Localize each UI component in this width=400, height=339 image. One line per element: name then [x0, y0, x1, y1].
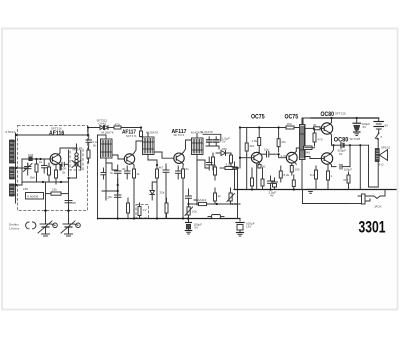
wire inner bottom bus [22, 181, 69, 183]
svg-text:SFT171: SFT171 [174, 133, 185, 137]
capacitor C14 [207, 157, 213, 170]
earphone jack [350, 190, 385, 209]
resistor 470 [114, 123, 121, 130]
svg-text:150: 150 [287, 122, 292, 126]
svg-text:5h: 5h [93, 144, 97, 148]
node out rail j2 [356, 117, 358, 119]
svg-text:3301: 3301 [359, 218, 386, 236]
IF transformer T3 [192, 134, 204, 161]
svg-text:4V: 4V [270, 194, 274, 198]
node bus2 [60, 181, 62, 183]
svg-text:SFT171: SFT171 [126, 134, 137, 138]
resistor on T2 riser [140, 131, 143, 137]
wire emitter resistor drop [60, 165, 61, 170]
svg-text:5n: 5n [186, 167, 190, 171]
wire agc bottom feed [102, 190, 118, 192]
antenna winding L2 [10, 167, 16, 179]
transistor AF117 no.2 [174, 152, 184, 164]
svg-text:8,2k: 8,2k [284, 173, 290, 177]
svg-text:AF116: AF116 [49, 131, 65, 137]
diode detector D3 [150, 186, 155, 200]
ferrite rod antenna bus wire [15, 133, 17, 203]
svg-text:30: 30 [122, 167, 126, 171]
wire OC80-2 emitter to output node [332, 145, 334, 152]
wire OC80-2 collector [332, 165, 337, 167]
capacitor C7 [125, 166, 131, 179]
wire AGC return [189, 203, 199, 205]
resistor R15 [214, 188, 217, 204]
speaker wiring loop [344, 144, 368, 146]
resistor 150 on rail [286, 122, 294, 129]
emitter resistor 50 [258, 165, 266, 169]
wire volume to rail [234, 172, 236, 190]
converter stage dashed enclosure [18, 126, 88, 211]
resistor R4 [55, 165, 58, 184]
vertical drops [246, 155, 248, 190]
oscillator coil T0 [69, 144, 84, 178]
svg-text:100: 100 [295, 168, 300, 172]
capacitor C21 [232, 162, 237, 172]
transistor OC75 no.2 [286, 151, 297, 164]
wire AGC line to T2 [121, 128, 141, 132]
resistor R25 [327, 164, 333, 190]
resistor R16 [245, 128, 248, 156]
transistor AF117 no.1 [124, 153, 134, 165]
series electrolytic 500uF [338, 143, 347, 156]
tuning gang section CA [38, 220, 57, 236]
supply rail audio [239, 128, 241, 169]
bias resistor 470 [313, 128, 323, 146]
node pot top [187, 203, 189, 205]
node antenna mid [15, 167, 17, 169]
svg-text:5n: 5n [109, 195, 113, 199]
svg-text:6V: 6V [195, 226, 199, 230]
svg-text:N.47A7K: N.47A7K [201, 130, 213, 134]
wire vertical feed b [359, 145, 361, 189]
svg-text:OC75: OC75 [251, 115, 265, 121]
transistor OC80 no.1 [321, 123, 332, 136]
node t2 top j [140, 126, 142, 128]
speaker SP102 [375, 146, 390, 167]
resistor R22 [279, 166, 289, 182]
electrolytic C15 horizontal on rail [208, 215, 224, 219]
diode D1 [100, 126, 104, 130]
capacitor C13 [214, 137, 220, 146]
svg-text:1.Krenz: 1.Krenz [9, 227, 20, 231]
wire AF117-2 collector to T3 [184, 140, 192, 152]
svg-text:6 Ω: 6 Ω [379, 162, 385, 166]
stage1 emitter capacitor C6 [110, 165, 121, 179]
stage1 emitter resistor [133, 168, 141, 184]
wire AF117-1 collector to T2 [134, 141, 143, 153]
resistor R2 [35, 159, 38, 182]
capacitor C9 [176, 166, 182, 179]
wire antenna tap [16, 164, 28, 168]
node agc bottom [117, 190, 119, 192]
wire det out down to filter [237, 168, 239, 219]
wire OC75-2 base [274, 154, 287, 158]
svg-text:70: 70 [52, 163, 56, 167]
electrolytic C18 [269, 178, 278, 198]
supply rail output stage [311, 117, 379, 119]
node agc return j [216, 203, 218, 205]
svg-text:SFT125: SFT125 [350, 137, 361, 141]
svg-text:1k: 1k [137, 172, 141, 176]
svg-text:SP102: SP102 [381, 146, 390, 150]
svg-text:10k: 10k [192, 210, 197, 214]
wire AF116 collector to osc coil [60, 148, 77, 153]
capacitor C3 coupling 10K [60, 162, 69, 170]
resistor Rx1 [87, 147, 90, 163]
stage2 emitter resistor [182, 165, 185, 184]
svg-text:1k: 1k [218, 194, 222, 198]
node gang1 [44, 210, 46, 212]
antenna winding L3 [10, 184, 16, 196]
node osc [67, 177, 69, 179]
node at x88 [87, 134, 89, 136]
antenna winding L1 [10, 140, 16, 163]
svg-text:JACK: JACK [374, 205, 382, 209]
svg-text:470: 470 [318, 138, 323, 142]
capacitor C11 [186, 189, 192, 202]
transistor OC75 no.1 [251, 152, 262, 164]
node det node [239, 157, 241, 159]
wire OC80-2 base from transformer [305, 157, 316, 159]
wire caps bottom bus [206, 146, 219, 149]
capacitor C10 [109, 189, 121, 199]
svg-text:25: 25 [73, 201, 77, 205]
capacitor C12 [207, 137, 213, 146]
detector diode D4 [216, 151, 231, 156]
wire antenna top to IF feed [16, 134, 88, 136]
wire det couple [152, 182, 157, 186]
svg-text:3,2k: 3,2k [226, 163, 232, 167]
svg-text:OC80: OC80 [321, 111, 335, 118]
connector half-moons [26, 222, 29, 229]
node output [332, 144, 334, 146]
capacitor C8 [163, 164, 169, 178]
svg-text:SFT316: SFT316 [51, 127, 62, 131]
switch S1 [375, 129, 382, 149]
svg-text:9V: 9V [385, 124, 389, 128]
resistor R27 on AGC return [199, 202, 207, 205]
wire node up to diode line [88, 128, 99, 136]
resistor R8 [138, 203, 141, 219]
wire vertical drops to ground rail [105, 163, 107, 200]
wire base feed [22, 158, 50, 160]
wire stage1 base lower [117, 179, 119, 189]
wire B-minus feed [97, 135, 99, 219]
battery B1 9V [374, 118, 388, 129]
svg-text:K04: K04 [28, 153, 34, 157]
svg-text:2V: 2V [222, 140, 226, 144]
resistor R12 [212, 153, 215, 170]
node base w2 [39, 158, 41, 160]
svg-text:OA61: OA61 [99, 121, 107, 125]
resistor R24 [310, 166, 318, 190]
wire T1 top [98, 134, 107, 136]
node rail j2 [133, 217, 135, 219]
output line to speaker loop [332, 144, 342, 146]
wire vertical feed a [349, 145, 351, 166]
wire AGC line [99, 127, 100, 129]
wire T1 to AF117 base [112, 155, 124, 159]
wire t3 bottom to det [197, 160, 209, 168]
electrolytic C20 [340, 164, 352, 171]
ground symbol below C23 [185, 231, 191, 235]
resistor R26 470 [343, 172, 350, 190]
capacitor C2 [42, 159, 48, 173]
svg-text:12V: 12V [246, 225, 251, 229]
wire if out top [203, 134, 221, 141]
wire osc coil bottom [69, 177, 77, 179]
capacitor C5 [86, 135, 92, 147]
svg-text:6V: 6V [363, 125, 367, 129]
svg-text:3,2: 3,2 [105, 196, 110, 200]
svg-text:A56: A56 [222, 147, 228, 151]
svg-text:2k2: 2k2 [250, 144, 255, 148]
node gang2 [67, 210, 69, 212]
wire antenna tap2 [16, 182, 22, 185]
wire jack loop left [303, 190, 351, 204]
ground rail main [98, 218, 241, 220]
svg-text:49: 49 [313, 123, 317, 127]
svg-text:470: 470 [343, 178, 348, 182]
node out rail j1 [330, 117, 332, 119]
resistor R19 [261, 168, 264, 190]
node gnd a3 [293, 188, 295, 190]
svg-text:8,2: 8,2 [310, 173, 315, 177]
resistor R3 [48, 163, 51, 182]
svg-text:SFT125: SFT125 [335, 112, 346, 116]
wire AF117-1 emitter down [133, 165, 135, 168]
electrolytic 200uF [353, 118, 370, 132]
node feed b [359, 144, 361, 146]
wire rail down to filter cap [239, 219, 241, 222]
node rail j1 [117, 217, 119, 219]
svg-text:150: 150 [23, 187, 28, 191]
node gnd a2 [269, 188, 271, 190]
svg-text:5k6: 5k6 [30, 176, 35, 180]
svg-text:6V: 6V [339, 152, 343, 156]
resistor R7 [156, 162, 159, 186]
label N.90636 [26, 193, 44, 200]
volume potentiometer 10k [185, 202, 197, 219]
svg-text:47k: 47k [281, 140, 286, 144]
svg-text:2k: 2k [62, 171, 66, 175]
node agc j [87, 126, 89, 128]
resistor R9 [165, 198, 168, 219]
neutralizing box [136, 205, 149, 219]
IF transformer T2 [143, 133, 155, 161]
node e1 [117, 184, 119, 186]
node rail j4 [182, 217, 184, 219]
ground symbol on audio rail [307, 190, 314, 194]
resistor R18 [251, 168, 254, 190]
wire base in [240, 157, 254, 159]
driver transformer T4 [300, 118, 306, 190]
svg-text:22k: 22k [160, 191, 165, 195]
node feed a [349, 144, 351, 146]
node antenna top [15, 134, 17, 136]
node base w1 [35, 158, 37, 160]
IF transformer T1 [101, 135, 113, 163]
svg-text:240: 240 [305, 151, 310, 155]
base resistor OC80 no1 [305, 123, 321, 130]
wire OC80-1 collector down to output node [331, 135, 333, 145]
svg-text:1,5k: 1,5k [252, 139, 258, 143]
node rail a1 [239, 126, 241, 128]
electrolytic filter capacitor 100uF [236, 222, 255, 233]
svg-text:4k7: 4k7 [159, 166, 164, 170]
ferrite bead K04 [29, 157, 33, 161]
diode D2 [105, 126, 109, 130]
svg-text:5n: 5n [110, 171, 114, 175]
resistor R21 [290, 164, 300, 176]
svg-text:470: 470 [115, 123, 120, 127]
trimmer capacitor C1 [24, 163, 33, 175]
node det out [236, 167, 238, 169]
trimmer 6046 [227, 188, 237, 206]
NTC bar R240 [304, 146, 315, 155]
svg-text:10µ: 10µ [264, 148, 269, 152]
tuning gang section CB [61, 220, 80, 236]
node gnd a1 [251, 188, 253, 190]
resistor R14 horizontal [220, 163, 238, 170]
transistor AF116 [50, 153, 61, 165]
node b2 [156, 164, 158, 166]
svg-text:N.90636: N.90636 [27, 195, 39, 199]
node bus1 [42, 181, 44, 183]
electrolytic C23 below rail [186, 219, 203, 231]
node rail a2 [258, 126, 260, 128]
resistor R20 [277, 128, 286, 153]
capacitor C22 [101, 168, 110, 200]
svg-text:100µF: 100µF [344, 168, 353, 172]
audio ground rail [234, 189, 396, 191]
wire T2 to AF117-2 base [154, 152, 174, 158]
wire det lower [194, 200, 197, 205]
wire OC80-1 emitter to rail [331, 118, 333, 123]
resistor R5 [46, 192, 69, 195]
wire driver collector to transformer [296, 148, 301, 151]
ground symbol under filter cap [237, 233, 244, 237]
resistor R11 [230, 153, 233, 168]
resistor R23 [292, 175, 295, 190]
coupling capacitor C16 [261, 148, 274, 158]
svg-text:M.25A7K: M.25A7K [102, 131, 114, 135]
capacitor C17 [268, 176, 274, 190]
resistor R13 [214, 165, 217, 180]
resistor R17 [252, 128, 261, 153]
wire AF116 emitter down [59, 165, 61, 170]
svg-text:15k: 15k [52, 188, 57, 192]
node rail j5 [187, 217, 189, 219]
svg-text:OC75: OC75 [285, 115, 299, 121]
node base2 [278, 153, 280, 155]
transistor OC80 no.2 [316, 153, 333, 166]
svg-text:1V: 1V [143, 208, 147, 212]
wire stage verticals [45, 182, 47, 220]
wire stage1 bias [106, 163, 118, 170]
svg-text:6.5K24: 6.5K24 [6, 130, 16, 134]
node rail j3 [156, 217, 158, 219]
capacitor C4 [65, 201, 76, 206]
node rail a3 [278, 126, 280, 128]
node antenna low [15, 184, 17, 186]
wire rail riser to output stage [303, 118, 311, 128]
wire stage2 bias [148, 160, 157, 162]
ground symbol below cap [354, 132, 361, 136]
svg-text:AA119: AA119 [198, 198, 207, 202]
svg-text:1k: 1k [39, 160, 43, 164]
